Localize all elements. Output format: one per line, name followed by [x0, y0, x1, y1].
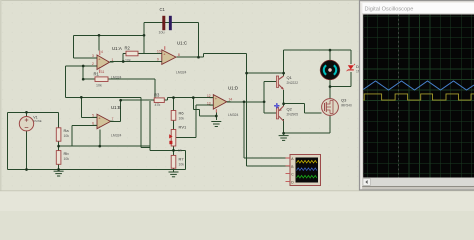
wire U1:A plus input — [73, 57, 96, 59]
diode D1 — [347, 64, 368, 74]
capacitor C1 — [159, 7, 172, 35]
svg-text:Q3: Q3 — [341, 98, 347, 103]
svg-text:9: 9 — [157, 57, 159, 61]
resistor R1 — [94, 72, 109, 88]
mosfet Q3 — [322, 98, 352, 116]
wire Rb bottom lead — [58, 164, 60, 169]
wire right drop to ground rail — [185, 150, 187, 169]
oscilloscope window — [359, 1, 474, 190]
svg-text:Digital Oscilloscope: Digital Oscilloscope — [365, 6, 414, 12]
wire bottom right rail — [284, 132, 330, 134]
svg-text:5: 5 — [92, 113, 94, 117]
wire C1 left vertical — [143, 22, 145, 53]
wire left rail vertical — [72, 35, 74, 58]
svg-text:U1:A: U1:A — [112, 46, 122, 51]
wire R1 right lead — [108, 78, 155, 80]
svg-text:1k: 1k — [178, 149, 182, 153]
wire U1:B output — [110, 120, 121, 122]
wire tap jog vertical — [149, 101, 151, 151]
wire gate jog — [304, 104, 306, 113]
wire V1 top rail — [8, 111, 59, 113]
svg-text:RV1: RV1 — [179, 125, 187, 130]
svg-text:1: 1 — [112, 58, 114, 62]
svg-text:LM324: LM324 — [111, 76, 121, 80]
transistor Q1 — [276, 75, 298, 90]
wire base bracket vertical — [263, 82, 265, 114]
wire V1 top stub — [26, 112, 28, 116]
wire U1:B power drop — [99, 130, 101, 147]
svg-text:LM324: LM324 — [176, 71, 186, 75]
wire R2 left lead — [123, 53, 126, 55]
wire top-left rail — [73, 34, 144, 36]
wire motor bottom link — [330, 86, 351, 88]
svg-text:10k: 10k — [64, 134, 70, 138]
wire gate route top — [284, 103, 305, 105]
wire U1:C out top route — [204, 52, 247, 54]
wire D1 bottom lead — [350, 72, 352, 87]
wire tap rail lower — [150, 149, 186, 151]
wire R7 top lead — [173, 150, 175, 155]
svg-text:10k: 10k — [125, 59, 131, 63]
wire RV1 wiper riser — [195, 105, 197, 138]
wire U1:D minus jog 2 — [193, 108, 199, 110]
svg-text:10k: 10k — [64, 157, 70, 161]
oscilloscope component — [286, 155, 321, 186]
wire Ra-Rb link — [58, 146, 60, 151]
wire V1 bottom drop — [26, 131, 28, 170]
wire U1:B lower input — [72, 124, 97, 126]
svg-text:R1: R1 — [94, 72, 100, 77]
wire U1:D minus jog 1 — [192, 98, 194, 110]
op-amp U1:C — [157, 41, 187, 75]
svg-text:Rb: Rb — [64, 151, 70, 156]
yellow square trace — [363, 94, 474, 100]
wire U1:C top input — [144, 53, 162, 55]
wire R2 branch vertical — [122, 54, 124, 62]
svg-text:4: 4 — [101, 50, 103, 54]
wire U1:D output — [227, 101, 264, 103]
op-amp U1:A — [92, 46, 122, 80]
resistor Rb — [56, 151, 69, 165]
transistor Q2 — [276, 106, 298, 121]
svg-text:10u: 10u — [159, 31, 165, 35]
wire motor top stub — [329, 50, 331, 61]
svg-text:R7: R7 — [179, 157, 185, 162]
wire RV1 wiper lead — [176, 137, 196, 139]
wire U1:B output riser — [120, 100, 122, 121]
svg-text:VSINE: VSINE — [33, 119, 42, 123]
wire bottom ground rail — [8, 169, 186, 171]
svg-text:R2: R2 — [125, 46, 131, 51]
wire Q1 base lead — [264, 81, 276, 83]
svg-text:13: 13 — [207, 101, 211, 105]
wire R1 branch vertical — [82, 66, 84, 79]
wire Q3 source drop — [329, 115, 331, 133]
wire Q2 base lead — [264, 112, 276, 114]
svg-text:10k: 10k — [96, 84, 102, 88]
wire Q1 collector stub — [283, 73, 285, 76]
svg-text:R3: R3 — [154, 93, 160, 98]
wire R3 right jog — [164, 99, 167, 101]
wire R1 to R3 vertical — [154, 79, 156, 100]
wire R6 top lead — [173, 98, 175, 111]
svg-text:8: 8 — [178, 53, 180, 57]
wire scope B lead — [247, 165, 290, 167]
op-amp U1:B — [92, 105, 121, 138]
wire Ra bottom lead — [58, 141, 60, 146]
potentiometer RV1 — [169, 125, 187, 153]
svg-text:6: 6 — [92, 121, 94, 125]
svg-text:LM324: LM324 — [111, 134, 121, 138]
resistor Ra — [56, 128, 69, 141]
wire U1:D lower input — [196, 104, 213, 106]
wire U1:B lower input drop — [71, 125, 73, 146]
resistor R6 — [171, 111, 184, 121]
svg-text:LM324: LM324 — [228, 113, 238, 117]
bottom status strip — [0, 191, 474, 211]
svg-text:2N2222: 2N2222 — [287, 81, 299, 85]
wire RV1 bottom lead — [173, 146, 175, 150]
op-amp U1:D — [207, 86, 238, 118]
wire U1:A output to U1:C input — [110, 61, 162, 63]
svg-text:U1:C: U1:C — [177, 41, 187, 46]
svg-text:47k: 47k — [155, 103, 161, 107]
wire feedback jog — [141, 147, 150, 149]
wire output jog — [203, 53, 205, 57]
wire Q3 gate lead — [305, 112, 322, 114]
svg-text:10k: 10k — [179, 163, 185, 167]
wire feedback drop — [140, 97, 142, 147]
ground push-pull output — [279, 133, 289, 140]
wire U1:D ground jog — [198, 109, 200, 116]
wire U1:A power drop — [98, 35, 100, 50]
svg-text:Q2: Q2 — [287, 107, 293, 112]
wire emitter node — [283, 90, 285, 106]
wire R3 net to U1:D — [168, 97, 214, 99]
svg-text:2: 2 — [92, 62, 94, 66]
svg-text:10: 10 — [157, 49, 161, 53]
svg-text:2N2905: 2N2905 — [287, 112, 299, 116]
wire scope A lead — [244, 157, 290, 159]
resistor R3 — [154, 93, 164, 107]
wire integrator feedback vertical — [65, 66, 67, 97]
wire C1 right vertical — [198, 22, 200, 57]
wire feedback rail — [66, 96, 142, 98]
wire U1:A minus input — [66, 65, 97, 67]
resistor R7 — [171, 155, 184, 168]
svg-text:12: 12 — [207, 94, 211, 98]
svg-text:11: 11 — [101, 70, 105, 74]
wire R3 jog riser — [167, 98, 169, 101]
wire U1:B input riser — [80, 97, 82, 117]
svg-text:14: 14 — [229, 98, 233, 102]
svg-text:Q1: Q1 — [287, 75, 293, 80]
wire U1:C output — [177, 56, 204, 58]
wire R1 left lead — [83, 78, 95, 80]
wire R7 bottom lead — [173, 168, 175, 171]
wire R3 left net — [121, 99, 155, 101]
scope center line — [398, 15, 400, 178]
svg-text:R6: R6 — [179, 111, 185, 116]
dc motor — [320, 60, 340, 80]
wire left loop vertical — [7, 112, 9, 169]
wire Ra top lead — [58, 112, 60, 128]
voltage source V1 — [19, 116, 41, 131]
wire scope B feed vertical — [246, 53, 248, 166]
wire Q1 collector riser — [283, 50, 285, 73]
svg-text:U1:B: U1:B — [111, 105, 121, 110]
ground below Rb — [54, 171, 64, 176]
wire U1:D ground lead — [199, 115, 216, 117]
svg-text:IRF540: IRF540 — [341, 103, 352, 107]
wire R6 to RV1 — [173, 120, 175, 129]
blue triangle trace — [363, 81, 474, 90]
svg-text:7: 7 — [112, 117, 114, 121]
ground below R7 — [169, 172, 179, 177]
scope scrollbar — [362, 178, 474, 186]
wire divider tap rail — [59, 145, 151, 147]
wire U1:D power to ground — [215, 113, 217, 121]
wire U1:B top input — [81, 116, 96, 118]
wire motor supply rail — [284, 49, 351, 51]
wire R2 right lead — [138, 53, 144, 55]
svg-text:Ra: Ra — [64, 128, 70, 133]
ground below U1:D — [211, 122, 221, 127]
wire C1 top net — [144, 21, 199, 23]
wire to Q1 collector — [247, 72, 284, 74]
wire Q2 collector drop — [283, 119, 285, 133]
wire scope A feed vertical — [243, 102, 245, 158]
wire motor bottom stub — [329, 80, 331, 99]
svg-text:C1: C1 — [160, 7, 166, 12]
voltage probe marker — [274, 103, 279, 108]
svg-text:3: 3 — [92, 54, 94, 58]
scope screen — [363, 15, 474, 178]
svg-text:10k: 10k — [179, 117, 185, 121]
svg-text:U1:D: U1:D — [228, 86, 238, 91]
wire D1 top lead — [350, 50, 352, 64]
resistor R2 — [125, 46, 139, 63]
